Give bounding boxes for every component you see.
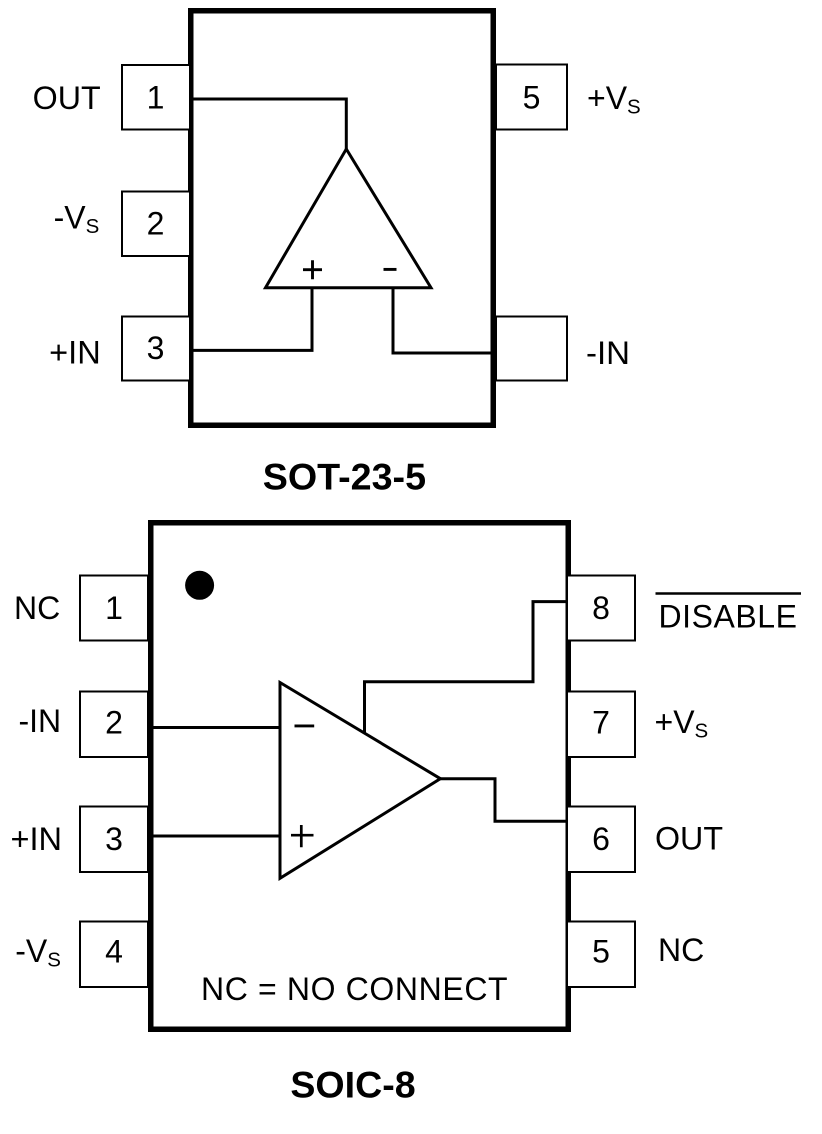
op-amp - input symbol	[384, 268, 397, 271]
pin 1 box (SOT-23-5)	[122, 65, 190, 130]
pin label OUT	[655, 821, 723, 857]
wire pin3 to op-amp + input	[150, 835, 281, 838]
pin 3 box (SOT-23-5)	[122, 317, 190, 381]
svg-text:2: 2	[105, 705, 123, 741]
wire pin3 to op-amp + input	[190, 287, 312, 350]
op-amp + input symbol	[291, 825, 314, 847]
pin label +VS	[587, 80, 641, 119]
overline for DISABLE	[656, 592, 802, 595]
pin label DISABLE	[659, 599, 798, 635]
pin 4 box -IN (SOT-23-5)	[496, 317, 567, 381]
svg-text:1: 1	[147, 80, 165, 116]
pin label -VS	[15, 933, 61, 972]
svg-text:8: 8	[592, 590, 610, 626]
pin number 2	[105, 705, 123, 741]
op-amp A2 (SOIC-8)	[280, 683, 440, 879]
pin number 4	[105, 934, 123, 970]
svg-text:7: 7	[592, 705, 610, 741]
pin label -VS	[54, 200, 100, 239]
svg-text:1: 1	[105, 590, 123, 626]
pin number 2	[147, 206, 165, 242]
pin label +IN	[49, 335, 101, 371]
package body U1 SOT-23-5	[191, 11, 494, 426]
pin label NC	[14, 590, 60, 626]
pin 8 box (SOIC-8)	[567, 576, 635, 641]
wire pin1 to op-amp output	[190, 99, 346, 150]
svg-text:+IN: +IN	[11, 821, 63, 857]
pin 2 box (SOT-23-5)	[122, 192, 190, 257]
pin label NC	[658, 932, 704, 968]
caption SOIC-8	[290, 1064, 415, 1105]
op-amp + input symbol	[303, 260, 322, 279]
svg-text:NC: NC	[14, 590, 60, 626]
op-amp - input symbol	[295, 724, 315, 727]
pin label -IN	[19, 703, 62, 739]
svg-text:+VS: +VS	[655, 704, 709, 743]
pin number 1	[147, 80, 165, 116]
wire pin8 DISABLE to op-amp top	[365, 602, 567, 734]
svg-text:5: 5	[523, 80, 541, 116]
caption SOT-23-5	[263, 457, 426, 498]
pin label +VS	[655, 704, 709, 743]
pin number 5	[592, 934, 610, 970]
svg-text:SOT-23-5: SOT-23-5	[263, 457, 426, 498]
svg-text:-VS: -VS	[54, 200, 100, 239]
svg-text:+VS: +VS	[587, 80, 641, 119]
svg-text:+IN: +IN	[49, 335, 101, 371]
svg-text:NC = NO CONNECT: NC = NO CONNECT	[201, 971, 508, 1007]
pin number 6	[592, 821, 610, 857]
svg-text:NC: NC	[658, 932, 704, 968]
package body U2 SOIC-8	[151, 523, 569, 1030]
pin 5 box (SOIC-8)	[567, 922, 635, 988]
svg-text:-VS: -VS	[15, 933, 61, 972]
pin number 5	[523, 80, 541, 116]
pin 7 box (SOIC-8)	[567, 692, 635, 758]
note NC = NO CONNECT	[201, 971, 508, 1007]
svg-text:5: 5	[592, 934, 610, 970]
svg-text:6: 6	[592, 821, 610, 857]
wire op-amp output to pin6	[440, 779, 566, 822]
wire -IN pin to op-amp - input	[393, 287, 497, 353]
svg-text:-IN: -IN	[19, 703, 62, 739]
pin number 1	[105, 590, 123, 626]
pin label -IN	[586, 335, 630, 371]
pin 3 box (SOIC-8)	[80, 807, 148, 873]
pin 1 indicator dot	[185, 571, 214, 600]
pin 5 box (SOT-23-5)	[496, 65, 567, 130]
wire pin2 to op-amp - input	[150, 726, 281, 729]
svg-text:OUT: OUT	[33, 80, 101, 116]
pin number 7	[592, 705, 610, 741]
pin 6 box (SOIC-8)	[567, 807, 635, 873]
pin number 3	[147, 330, 165, 366]
pin 1 box (SOIC-8)	[80, 576, 148, 641]
svg-text:SOIC-8: SOIC-8	[290, 1064, 415, 1105]
pin 4 box (SOIC-8)	[80, 922, 148, 988]
svg-text:DISABLE: DISABLE	[659, 599, 798, 635]
svg-text:3: 3	[147, 330, 165, 366]
op-amp A1 (SOT-23-5)	[266, 149, 432, 288]
svg-text:3: 3	[105, 821, 123, 857]
svg-text:-IN: -IN	[586, 335, 630, 371]
pin number 8	[592, 590, 610, 626]
pin label +IN	[11, 821, 63, 857]
pin 2 box (SOIC-8)	[80, 692, 148, 758]
pin label OUT	[33, 80, 101, 116]
svg-text:4: 4	[105, 934, 123, 970]
svg-text:OUT: OUT	[655, 821, 723, 857]
svg-text:2: 2	[147, 206, 165, 242]
pin number 3	[105, 821, 123, 857]
